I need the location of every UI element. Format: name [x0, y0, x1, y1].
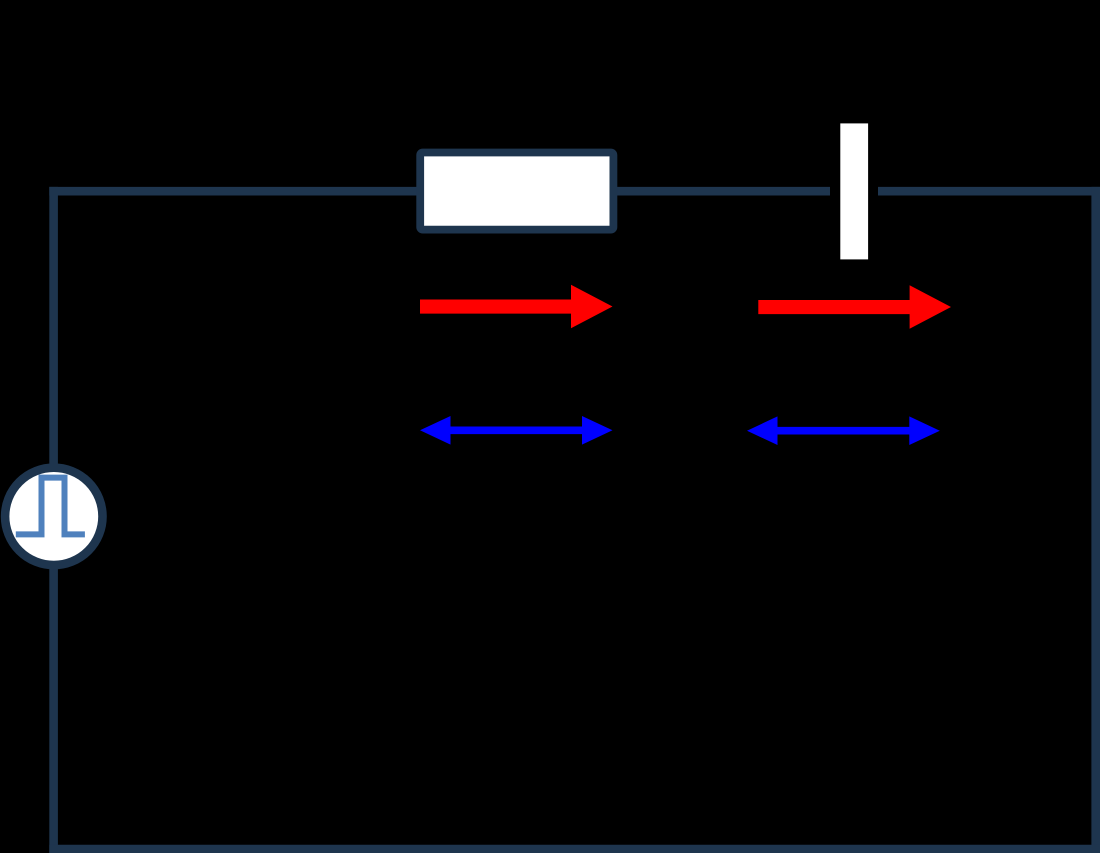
blue double arrow (reflection under capacitor) — [747, 416, 940, 445]
resistor R — [420, 153, 613, 230]
wire top from capacitor to right corner — [878, 187, 1100, 196]
wire right vertical — [1091, 187, 1100, 853]
pulse source V1 waveform symbol — [16, 478, 85, 535]
wire top from left corner to capacitor gap — [49, 187, 830, 196]
red arrow (incident pulse over resistor) — [420, 285, 613, 328]
capacitor plate C — [840, 123, 868, 259]
wire bottom — [49, 845, 1100, 853]
blue double arrow (reflection under resistor) — [420, 416, 613, 445]
wire left vertical — [49, 187, 58, 853]
red arrow (incident pulse over capacitor) — [758, 285, 951, 328]
pulse source V1 circle — [5, 468, 102, 565]
